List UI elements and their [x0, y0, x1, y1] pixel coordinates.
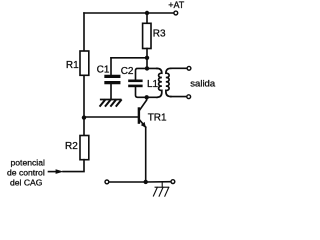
node salida top terminal	[187, 66, 191, 70]
svg-text:C2: C2	[121, 66, 134, 77]
svg-text:potencial: potencial	[11, 158, 45, 168]
resistor R3	[143, 23, 151, 48]
inductor L1 secondary winding (right, bumps facing right)	[166, 68, 171, 96]
junction tank top / R3	[145, 66, 149, 70]
wire base (left rail to TR1 base)	[84, 116, 138, 118]
svg-text:+AT: +AT	[168, 0, 185, 10]
wire R3 bottom lead to tank top	[146, 49, 148, 69]
junction tank bottom / collector	[145, 95, 149, 99]
junction left rail / base wire	[82, 115, 86, 119]
wire secondary bottom to salida terminal	[171, 96, 187, 98]
control input arrow	[49, 169, 64, 174]
svg-text:TR1: TR1	[148, 113, 167, 124]
transistor TR1 emitter lead with arrow	[140, 120, 146, 128]
wire C1 bottom lead to ground	[110, 84, 112, 99]
resistor R3 top lead	[146, 13, 148, 23]
svg-text:salida: salida	[190, 78, 216, 89]
svg-text:R3: R3	[153, 29, 166, 40]
svg-text:del CAG: del CAG	[10, 178, 43, 188]
capacitor C2	[130, 81, 142, 86]
wire C1 top lead	[110, 58, 112, 75]
wire bottom rail left to terminal	[109, 181, 146, 183]
junction top rail / R3	[145, 11, 149, 15]
wire tank bottom (C2 bottom to L1 bottom)	[136, 87, 158, 97]
node bottom left terminal	[105, 180, 109, 184]
wire R2 bottom to control input corner	[63, 160, 84, 172]
wire left rail down to R1	[83, 13, 85, 51]
svg-text:C1: C1	[97, 65, 110, 76]
transistor TR1 base bar	[138, 109, 140, 123]
wire tank top (C2 top to L1 top)	[136, 68, 158, 79]
transistor TR1 collector lead	[140, 97, 147, 110]
node +AT terminal circle	[174, 11, 178, 15]
wire emitter down to bottom rail	[145, 127, 147, 182]
wire bottom rail right to terminal	[146, 181, 171, 183]
resistor R2	[80, 136, 89, 160]
svg-text:R2: R2	[65, 141, 78, 152]
ground (C1, hatched earth)	[100, 100, 121, 106]
label potencial de control del CAG	[7, 158, 45, 188]
capacitor C1	[106, 76, 119, 82]
wire secondary top to salida terminal	[171, 67, 187, 69]
svg-text:L1: L1	[147, 79, 159, 90]
resistor R1	[80, 51, 89, 75]
junction R3 / C1 branch	[145, 56, 149, 60]
node bottom right terminal	[171, 180, 175, 184]
wire R1 bottom to base junction	[83, 75, 85, 118]
node salida bottom terminal	[187, 95, 191, 99]
svg-text:de control: de control	[7, 168, 45, 178]
svg-text:R1: R1	[66, 60, 79, 71]
wire base junction to R2	[83, 118, 85, 136]
inductor L1 primary winding (left, bumps facing left)	[157, 68, 162, 97]
wire top rail from R1 top to +AT terminal	[84, 12, 174, 14]
wire C1 branch (junction to C1 top)	[111, 57, 147, 59]
junction emitter / bottom rail	[144, 180, 148, 184]
ground (bottom, earth with three hatches)	[153, 182, 168, 196]
